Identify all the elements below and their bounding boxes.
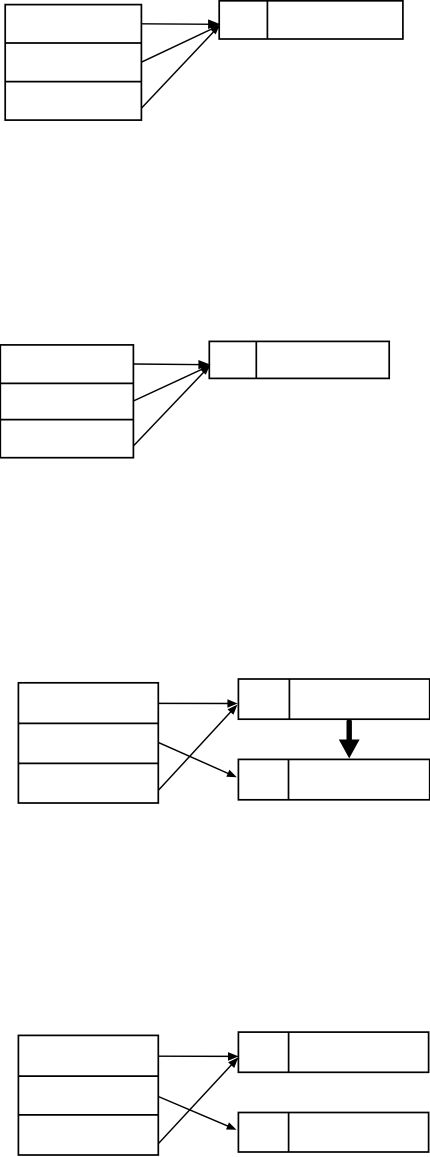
wire W1b (T1 row2 to F1) (141, 25, 219, 62)
table T4 (3-row page table, section 4) (18, 1035, 158, 1155)
wire W2b (T2 row2 to F2) (133, 366, 209, 401)
wire W1a (T1 row1 to F1) (141, 19, 220, 29)
wire W1c (T1 row3 to F1) (141, 26, 219, 109)
table T1 (3-row page table, section 1) (5, 5, 141, 121)
box F3b (lower 2-cell frame, section 3) (238, 759, 429, 799)
wire W2a (T2 row1 to F2) (133, 360, 210, 369)
wire W3b (T3 row2 to F3b) (158, 742, 237, 777)
thick down arrow D3 (F3a to F3b) (339, 722, 360, 759)
wire W3a (T3 row1 to F3a) (158, 699, 237, 708)
wire W4b (T4 row2 to F4b) (158, 1097, 236, 1130)
table T3 (3-row page table, section 3) (18, 683, 158, 803)
box F4a (upper 2-cell frame, section 4) (238, 1032, 428, 1072)
table T2 (3-row page table, section 2) (0, 345, 133, 458)
box F3a (upper 2-cell frame, section 3) (238, 679, 429, 719)
wire W2c (T2 row3 to F2) (133, 366, 209, 446)
wire W3c (T3 row3 to F3a) (158, 705, 237, 791)
box F1 (2-cell frame, section 1) (219, 1, 403, 39)
box F4b (lower 2-cell frame, section 4) (238, 1113, 428, 1153)
wire W4a (T4 row1 to F4a) (158, 1052, 238, 1061)
box F2 (2-cell frame, section 2) (209, 341, 389, 378)
wire W4c (T4 row3 to F4a) (158, 1057, 238, 1143)
